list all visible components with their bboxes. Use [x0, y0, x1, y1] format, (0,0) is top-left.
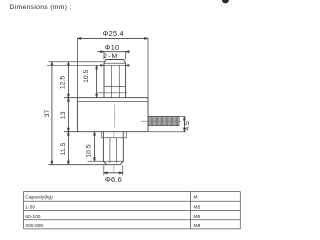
dimension 4.5 label (rotated)	[184, 121, 191, 131]
extension line left / body left edge x=77.4	[76, 38, 78, 98]
body top chamfer line	[77, 100, 148, 102]
2-M arrow line / thread start reference	[47, 65, 129, 67]
svg-text:10.5: 10.5	[83, 69, 90, 82]
dimension phi25.4 line with arrows	[77, 38, 148, 40]
svg-text:13: 13	[60, 111, 67, 119]
dimension phi6.6 line, outside arrows	[104, 172, 123, 174]
svg-text:Dimensions (mm) :: Dimensions (mm) :	[10, 4, 72, 11]
stud centerline segments	[113, 133, 115, 173]
phi10 extension lines	[104, 52, 126, 59]
svg-text:Φ6.6: Φ6.6	[105, 175, 122, 184]
dimension phi10 label	[105, 43, 120, 52]
table row 3: 60-100 | M6	[25, 214, 200, 220]
dimension 10.5 bottom label (rotated)	[86, 144, 93, 157]
dimension 10.5 bottom line	[94, 132, 96, 162]
table row 4: 200-500 | M8	[25, 223, 200, 229]
svg-text:60-100: 60-100	[25, 214, 41, 220]
svg-text:200-500: 200-500	[25, 223, 43, 229]
body vertical centerline	[114, 105, 116, 128]
dimension phi6.6 label	[105, 175, 122, 184]
dimension phi10 line, outside arrows	[97, 51, 129, 53]
dimension phi6.6 extension lines	[104, 165, 123, 175]
title text "Dimensions (mm):"	[10, 4, 72, 11]
dimension 11.5 label (rotated)	[60, 142, 67, 155]
photo dot artifact top right	[221, 0, 233, 10]
svg-text:Φ25.4: Φ25.4	[103, 29, 124, 38]
svg-text:M6: M6	[194, 214, 201, 220]
bottom stud thread start line	[102, 137, 127, 139]
bottom stud chamfer line	[88, 160, 124, 162]
stud-top reference extension line	[49, 61, 106, 63]
dimension chain line x=68.4 with arrows	[68, 62, 70, 165]
top stud base flange line	[97, 92, 128, 94]
dimension 13 label (rotated)	[60, 111, 67, 119]
svg-text:37: 37	[44, 110, 51, 118]
table grid	[24, 192, 241, 229]
svg-text:M5: M5	[194, 205, 201, 211]
dimension 4.5 line (outside arrows)	[184, 117, 186, 132]
top stud thread root lines	[112, 65, 120, 97]
top stud outline	[104, 60, 126, 98]
dimension 10.5 top line	[96, 65, 98, 97]
bottom stud thread root lines	[110, 138, 117, 163]
svg-text:M: M	[194, 195, 198, 201]
svg-text:1-50: 1-50	[25, 205, 35, 211]
dimension 37 label (rotated)	[44, 110, 51, 118]
svg-text:4.5: 4.5	[184, 121, 191, 131]
dimension phi25.4 label	[103, 29, 124, 38]
top stud chamfer line	[104, 62, 126, 64]
svg-text:12.5: 12.5	[59, 76, 66, 89]
extension line right x=148	[147, 38, 149, 98]
svg-text:Φ10: Φ10	[105, 43, 120, 52]
thread callout 2-M label	[103, 53, 118, 60]
main body rectangle	[64, 98, 148, 132]
bottom stud bottom edge + left extension line	[49, 164, 121, 166]
rod centerline	[141, 120, 182, 122]
svg-text:Capacity(kg): Capacity(kg)	[25, 195, 53, 201]
svg-text:M8: M8	[194, 223, 201, 229]
table row 2: 1-50 | M5	[25, 205, 200, 211]
dimension 37 line with arrows	[51, 62, 53, 165]
rod extension lines	[149, 117, 187, 132]
dimension 10.5 top label (rotated)	[83, 69, 90, 82]
svg-text:11.5: 11.5	[60, 142, 67, 155]
bottom stud outline	[103, 132, 123, 165]
top stud thread end line	[104, 86, 126, 88]
rod thread hatching	[148, 117, 178, 125]
threaded rod right side	[148, 117, 179, 126]
dimension 12.5 label (rotated)	[59, 76, 66, 89]
svg-text:10.5: 10.5	[86, 144, 93, 157]
table row 1: Capacity(kg) | M	[25, 195, 197, 201]
bottom stud base flange	[102, 132, 127, 138]
